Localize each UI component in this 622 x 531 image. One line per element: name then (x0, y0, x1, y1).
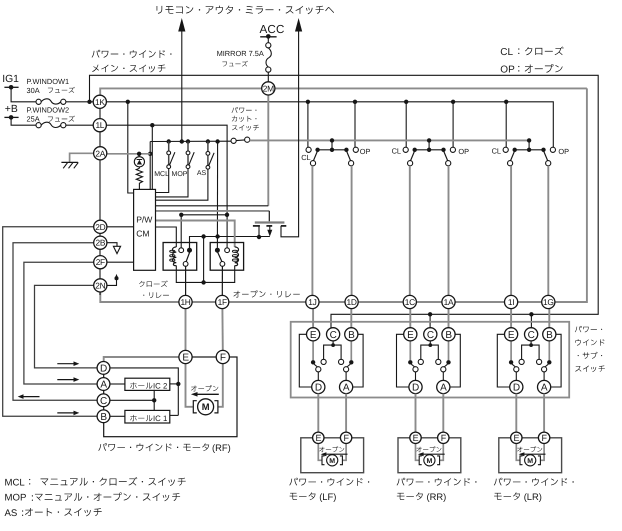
svg-text:2D: 2D (95, 222, 105, 232)
wire: A to hall IC 2 (110, 383, 125, 385)
sub switch LF node feeds (312, 309, 314, 328)
svg-text:ACC: ACC (260, 23, 285, 36)
sub switch LF B-A switch (350, 341, 352, 360)
svg-text:F: F (441, 433, 447, 443)
off-page triangle at 2B (113, 246, 120, 253)
wire: right gray frame down to 1G / connector row (555, 88, 587, 302)
switch group 2 CL/OP rocker (427, 138, 431, 142)
power cut switch contacts (231, 138, 236, 143)
svg-text:MOP: MOP (5, 493, 27, 504)
svg-text:OP: OP (458, 147, 469, 156)
wire: 2A to LED/resistor chain (107, 153, 151, 155)
motor M LF (327, 455, 338, 466)
motor M1 RF (198, 399, 214, 415)
wire: OP1 contact feed (353, 100, 357, 104)
svg-text:B: B (546, 330, 553, 341)
svg-text:MCL: MCL (154, 171, 169, 178)
label: motor RR caption (397, 478, 477, 486)
wire: relay contact link (1L net) (181, 214, 227, 216)
wire: 2B wrap-around to pin C (13, 243, 97, 401)
pin circles E F LR (511, 432, 522, 443)
wire: CL2 contact feed (404, 100, 408, 104)
svg-text:A: A (541, 383, 548, 394)
hall IC 1 box U1 (125, 410, 170, 423)
sub switch LF pin circles (307, 328, 320, 341)
svg-text:M: M (426, 458, 432, 465)
label: power window sub switch (575, 326, 602, 333)
svg-text:B: B (100, 412, 107, 423)
switch group 1 CL/OP rocker (330, 138, 334, 142)
transistor Q1 gate bar (255, 221, 285, 223)
signal arrow on B wire (57, 412, 74, 414)
svg-text:E: E (182, 353, 189, 364)
manual switch MOP (186, 139, 190, 143)
svg-text:E: E (310, 330, 317, 341)
switch group 3 pivots (508, 161, 513, 166)
svg-text:P.WINDOW2: P.WINDOW2 (27, 106, 70, 115)
switch group 2 pivots (408, 161, 413, 166)
svg-text:C: C (528, 330, 535, 341)
sub switch LR node feeds (510, 309, 512, 328)
wire: 2A to ground (70, 153, 94, 162)
indicator diode D1 in circle (138, 154, 140, 157)
svg-text:CL: CL (492, 146, 501, 155)
pin circles E F RF (179, 350, 192, 363)
wire: CL3 contact feed (504, 100, 508, 104)
wire: close relay coil feed from P/W CM (156, 227, 177, 247)
hall IC 2 box U2 (125, 378, 170, 390)
open direction arrow RF (197, 393, 219, 395)
svg-text:M: M (527, 458, 533, 465)
wire: 1H to motor E (185, 309, 187, 351)
svg-text:2M: 2M (263, 83, 274, 93)
junction: 1L to P/W CM (150, 123, 154, 127)
svg-text:IG1: IG1 (2, 74, 19, 85)
sub switch LR inner frame (497, 334, 510, 387)
sub switch RR pin circles (404, 328, 417, 341)
node 2B (94, 236, 107, 249)
motor LR brushes (520, 456, 523, 465)
wire: black outer frame from 1K around top/right to sub-switch C bus (90, 75, 599, 328)
pin circles E F RR (410, 432, 421, 443)
node 1C (403, 295, 416, 308)
transistor Q1 channel stubs (253, 225, 260, 227)
fuse F1 P.WINDOW1 30A (36, 99, 41, 104)
motor M RR (424, 455, 435, 466)
svg-text:D: D (513, 383, 520, 394)
svg-text:1J: 1J (308, 297, 316, 307)
node 1L (93, 119, 106, 132)
svg-text:30A: 30A (27, 86, 40, 95)
motor LF brushes (322, 456, 325, 465)
wire: 1K output bus to window switch contacts (106, 102, 553, 148)
svg-text:IC 2: IC 2 (153, 382, 167, 391)
label: close relay (139, 281, 168, 287)
wire: LF D/A to motor (317, 394, 319, 433)
sub switch LR C bracket (530, 341, 532, 345)
svg-text:E: E (315, 433, 321, 443)
wire: 2N wrap-around to pin D (35, 285, 98, 368)
sub switch RR B-A switch (448, 341, 450, 360)
svg-text:CL: CL (301, 153, 310, 162)
wire: 2M supply bus (1K top to right frame, through 2M) (100, 88, 587, 95)
svg-text:C: C (427, 330, 434, 341)
motor LF wiring (318, 444, 322, 461)
svg-text:M: M (202, 401, 210, 412)
wire: open relay coil feed from P/W CM (156, 221, 235, 248)
power tap +B bar (4, 116, 18, 118)
wire: OP2 contact feed (451, 100, 455, 104)
motor M1 brushes (193, 401, 197, 413)
arrowhead right remote arrow (295, 18, 302, 32)
svg-text:1K: 1K (95, 97, 105, 107)
sub switch LR pin circles (505, 328, 518, 341)
sub switch LF E-D switch (312, 341, 314, 360)
svg-text:+B: +B (5, 104, 18, 115)
svg-text:P.WINDOW1: P.WINDOW1 (27, 77, 70, 86)
node 1D (345, 295, 358, 308)
svg-text:OP: OP (360, 147, 371, 156)
wire: switch supply bus from P/W CM corner to power cut switch (150, 140, 231, 142)
switch group 2 CL contact (403, 147, 408, 152)
svg-text:2N: 2N (95, 280, 105, 290)
label: motor LR caption (494, 478, 574, 486)
node 1J (306, 295, 319, 308)
wire: power cut junction down to open relay contact (215, 139, 219, 143)
label: power window motor RF (98, 443, 209, 451)
wire: AS to P/W CM (156, 169, 208, 200)
relay RY2 coil (235, 247, 239, 266)
wire: CL/OP gray bus from power cut switch (250, 139, 529, 141)
power window motor LF box (301, 438, 364, 473)
svg-text:1I: 1I (508, 297, 514, 307)
arrowhead left remote arrow (178, 18, 185, 32)
svg-text:1A: 1A (444, 297, 454, 307)
labels hall IC (130, 382, 152, 388)
switch group 1 pivots (310, 161, 315, 166)
signal arrow on A wire (57, 379, 74, 381)
label open RR (416, 446, 441, 452)
switch group 1 CL contact (306, 147, 311, 152)
svg-text:(RR): (RR) (427, 491, 447, 502)
svg-text:D: D (100, 364, 107, 375)
label open LR (517, 446, 542, 452)
wire: MOP to P/W CM (156, 169, 189, 197)
power tap ACC bar (260, 36, 276, 38)
wire: fuse F1 to 1K with frame junction (66, 101, 94, 103)
wire: MCL to P/W CM (156, 169, 169, 193)
manual switch MCL (167, 139, 171, 143)
svg-text:E: E (508, 330, 515, 341)
switch group 3 CL/OP rocker (527, 138, 531, 142)
svg-text:2F: 2F (96, 257, 105, 267)
sub switch LF inner frame (299, 334, 312, 387)
svg-text:1G: 1G (543, 297, 554, 307)
svg-text:B: B (348, 330, 355, 341)
svg-text:1D: 1D (347, 297, 357, 307)
wire: gate feed from P/W CM (156, 210, 270, 212)
wire: RY1 to 1H (185, 266, 187, 295)
wire: 2N drop to row (100, 292, 179, 302)
svg-text:E: E (407, 330, 414, 341)
svg-text:P/W: P/W (136, 215, 153, 225)
svg-text:F: F (541, 433, 547, 443)
wire: IC2 output junction (170, 383, 179, 385)
sub switch LF C bracket (332, 341, 334, 345)
svg-text:1C: 1C (405, 297, 415, 307)
power window sub switch box (291, 322, 570, 398)
signal arrow on C wire (pointing left) (23, 396, 40, 398)
svg-text:OP: OP (558, 147, 569, 156)
wire: IC1 to bus (170, 414, 179, 416)
wire: RY2 to 1F (221, 266, 223, 295)
node 1H (179, 295, 192, 308)
switch group 2 OP contact (450, 147, 455, 152)
wire: 2D stub into P/W CM (107, 226, 134, 228)
power window motor LR box (499, 438, 562, 473)
sub switch RR inner frame (397, 334, 410, 387)
wire: relay/transistor common bus (190, 237, 270, 248)
power window motor RR box (398, 438, 461, 473)
open arrow LR (524, 453, 546, 455)
wire: +B feed to fuse and 1L (11, 117, 36, 125)
svg-text:MCL: MCL (5, 477, 26, 488)
motor LR wiring (516, 444, 520, 461)
switch group 2 blades (410, 152, 414, 161)
svg-text:AS: AS (197, 170, 207, 177)
relay RY2 contacts and blade (215, 248, 220, 253)
sub switch LR E-D switch (510, 341, 512, 360)
wire: C to IC link (110, 399, 154, 401)
svg-text:AS: AS (5, 508, 18, 519)
wire: 1L line to relay common (106, 125, 227, 248)
svg-text:CL: CL (500, 47, 513, 58)
wire: pivot drops to connector row (311, 166, 313, 296)
motor M LR (525, 455, 536, 466)
label: power cut switch (232, 107, 257, 113)
wire: fuse F2 to 1L (66, 124, 94, 126)
label: motor LF caption (289, 478, 369, 486)
label open RF (191, 385, 218, 391)
svg-text:IC 1: IC 1 (153, 414, 167, 423)
svg-text:D: D (412, 383, 419, 394)
node 1A (442, 295, 455, 308)
wire: coil bottom return path (176, 266, 234, 283)
wire: CL1 contact feed (306, 100, 310, 104)
wire: connector row 2N-1H-1F...1G (100, 301, 555, 303)
wire: 2F wrap-around to pin A (24, 262, 97, 384)
transistor Q1 source to common bus (258, 226, 260, 237)
svg-text:F: F (343, 433, 349, 443)
sub switch LR B-A switch (548, 341, 550, 360)
wire: IG1 feed to fuse and 1K (11, 87, 36, 102)
svg-text:(RF): (RF) (212, 442, 231, 453)
transistor Q1 body arrow (269, 226, 271, 233)
svg-text:C: C (330, 330, 337, 341)
open arrow RR (423, 453, 445, 455)
switch group 1 blades (313, 152, 317, 161)
wire: F down to motor brush (218, 364, 222, 407)
control module P/W CM (134, 189, 156, 270)
junction: C bus to C3 (529, 312, 533, 316)
svg-text:MIRROR 7.5A: MIRROR 7.5A (217, 49, 264, 58)
wire: 2B stub to arrow (107, 243, 117, 247)
svg-text:E: E (413, 433, 419, 443)
svg-text:OP: OP (500, 65, 515, 76)
node 1F (216, 295, 229, 308)
svg-text:E: E (513, 433, 519, 443)
node 2F (94, 256, 107, 269)
svg-text:CM: CM (136, 228, 149, 238)
wire: 2M drop into P/W CM (267, 95, 269, 206)
fuse F3 MIRROR 7.5A (266, 43, 271, 48)
transistor Q1 drain wire up to mirror switch arrow (right) (281, 29, 299, 237)
ground symbol (61, 161, 78, 163)
junction: C bus to C2 (428, 312, 432, 316)
switch group 3 blades (510, 152, 514, 161)
svg-text:25A: 25A (27, 115, 40, 124)
relay RY1 contacts and blade (189, 243, 191, 248)
svg-text:(LF): (LF) (319, 491, 336, 502)
svg-text:1H: 1H (180, 297, 190, 307)
node 1G (542, 295, 555, 308)
label: open relay (233, 290, 299, 297)
node 2D (94, 220, 107, 233)
wire: B to hall IC 1 (110, 415, 125, 417)
svg-text:A: A (440, 383, 447, 394)
label: to remote outer mirror switch (157, 6, 334, 15)
motor RR wiring (416, 444, 420, 461)
label open LF (319, 446, 344, 452)
wire: 1F to motor F (221, 309, 223, 351)
junction: 1K to P/W CM (126, 100, 130, 104)
pin circles E F LF (313, 432, 324, 443)
wire: 2F stub into P/W CM (107, 261, 134, 263)
power tap IG1 bar (4, 86, 18, 88)
wire: 2D wrap-around to pin B (3, 227, 97, 416)
svg-text:B: B (445, 330, 452, 341)
wire: ACC drop to mirror fuse (267, 37, 269, 43)
switch group 3 CL contact (503, 147, 508, 152)
svg-text:1F: 1F (218, 297, 227, 307)
relay RY1 close relay box (163, 243, 197, 271)
auto switch AS (206, 139, 210, 143)
node 1K (93, 95, 106, 108)
svg-text:2B: 2B (95, 238, 105, 248)
relay RY1 coil (172, 247, 176, 266)
svg-text:1L: 1L (95, 120, 104, 130)
svg-text:(LR): (LR) (524, 491, 542, 502)
svg-text:2A: 2A (95, 148, 105, 158)
wire: E to D internal (gray) (104, 357, 179, 361)
wire: node spine 1K-1L-2A-2D-2B-2F-2N (99, 102, 101, 295)
wire: mirror fuse to 2M (267, 72, 269, 82)
signal arrow on D wire (57, 363, 74, 365)
junction: common bus to coil return (201, 234, 205, 238)
body connector arrow at 2N (107, 279, 117, 285)
svg-text:F: F (220, 353, 226, 364)
wire: D to hall IC bus (110, 368, 178, 416)
svg-text:C: C (100, 396, 107, 407)
switch group 3 OP contact (550, 147, 555, 152)
label: power window main switch (92, 50, 172, 58)
svg-text:MOP: MOP (172, 171, 188, 178)
sub switch RR node feeds (409, 309, 411, 328)
svg-text:A: A (343, 383, 350, 394)
svg-text:CL: CL (392, 146, 401, 155)
node 2A (94, 147, 107, 160)
node 2M (262, 82, 275, 95)
sub switch RR E-D switch (409, 341, 411, 360)
svg-text:D: D (315, 383, 322, 394)
wire: RR D/A to motor (415, 394, 417, 433)
sub switch RR C bracket (429, 341, 431, 345)
svg-text:A: A (100, 380, 107, 391)
wire: up-arrow to remote mirror switch (left) (181, 29, 183, 142)
junction: bus corner into P/W CM with 2A tap (149, 142, 151, 190)
power window motor RF box (104, 357, 237, 437)
relay RY2 open relay box (210, 243, 243, 271)
pin circles D A C B RF (97, 362, 110, 375)
wire: E down to motor brush (186, 364, 193, 407)
svg-text:M: M (329, 458, 335, 465)
fuse F2 P.WINDOW2 25A (36, 123, 41, 128)
resistor R1 (138, 167, 140, 168)
motor RR brushes (419, 456, 422, 465)
wire: LR D/A to motor (515, 394, 517, 433)
switch group 1 OP contact (353, 147, 358, 152)
node 1I (505, 295, 518, 308)
node 2N (94, 279, 107, 292)
open arrow LF (326, 453, 348, 455)
